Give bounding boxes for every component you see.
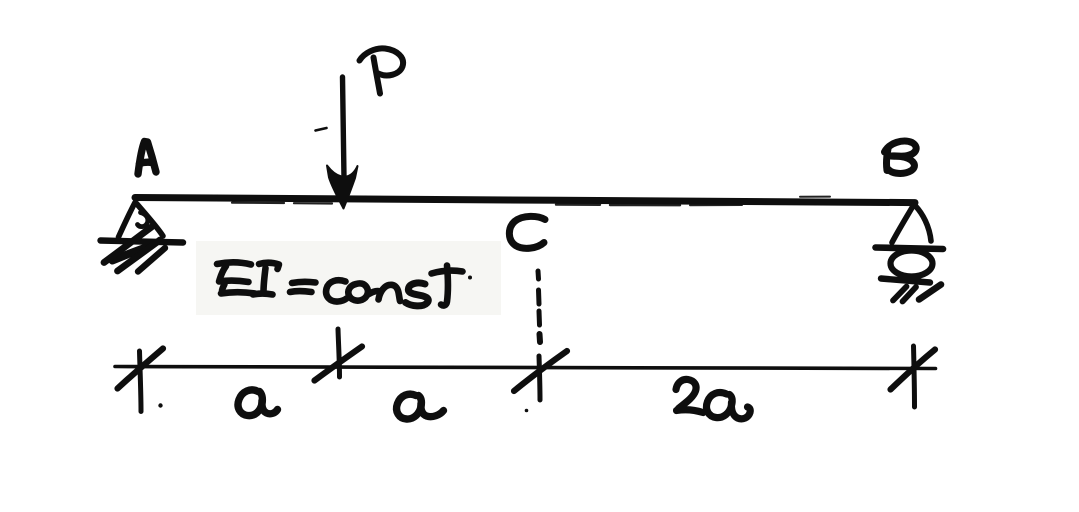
dashed construction line at C	[538, 271, 540, 342]
scan shading patch behind EI=const	[196, 241, 501, 315]
dimension line	[115, 367, 936, 369]
beam AB	[556, 203, 600, 206]
tick at load point	[315, 329, 363, 381]
pin support A	[101, 203, 184, 272]
force label P	[360, 48, 404, 93]
dot after const	[468, 276, 472, 280]
dimension label a (first)	[238, 390, 278, 416]
roller support B	[876, 206, 944, 302]
force P arrow	[343, 77, 345, 178]
speck near C tick	[525, 409, 529, 413]
dimension label a (second)	[397, 394, 444, 419]
tick at B	[891, 346, 936, 407]
EI = const label	[217, 262, 463, 306]
node C label	[509, 216, 545, 248]
node A label	[138, 142, 156, 175]
dot after tick A	[158, 403, 162, 407]
node B label	[885, 141, 917, 173]
tick at C	[514, 351, 567, 400]
tick at A	[118, 349, 164, 412]
dimension label 2a	[676, 379, 750, 418]
stray mark near arrow	[316, 128, 327, 131]
